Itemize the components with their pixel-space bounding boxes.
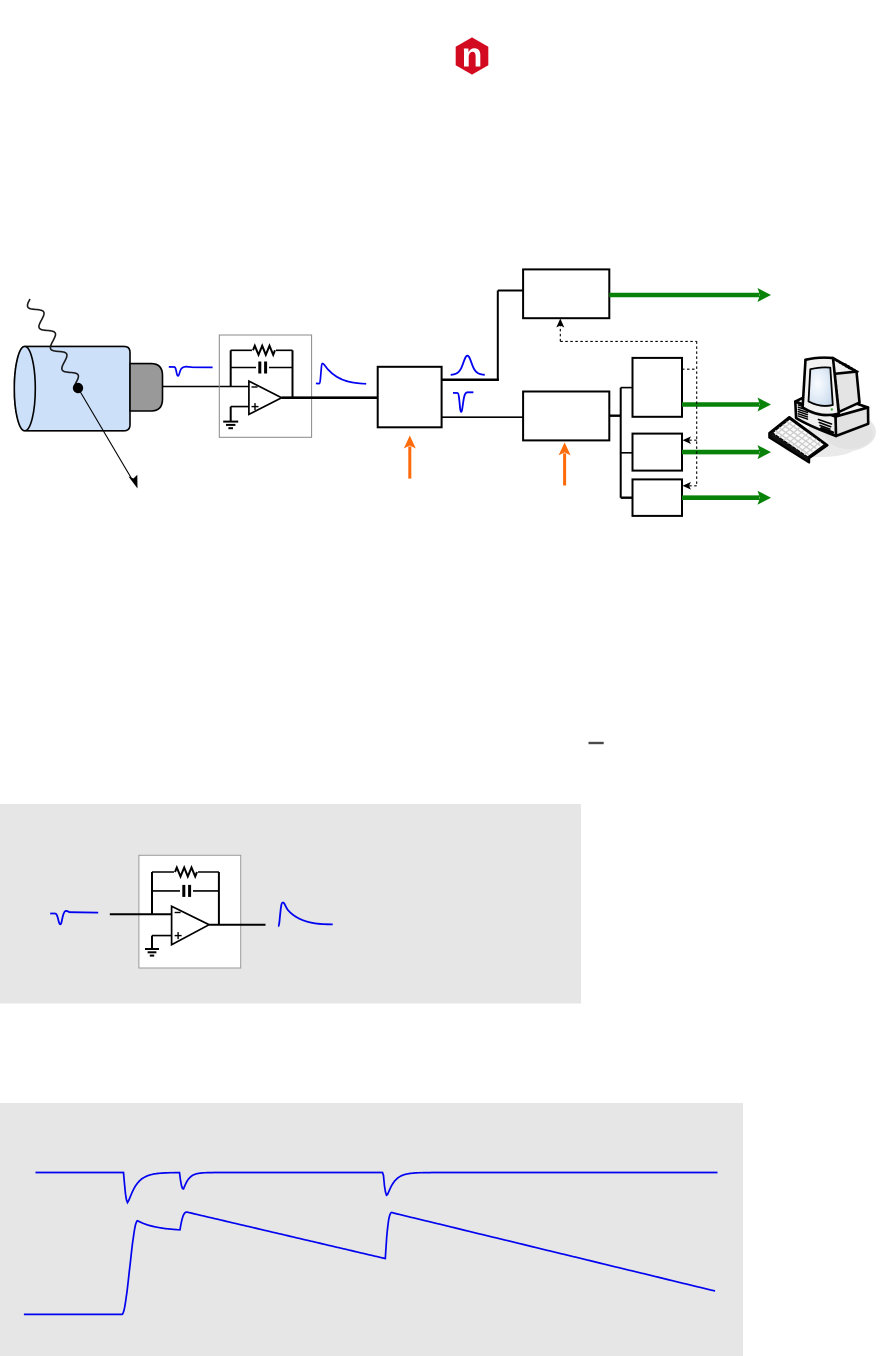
svg-text:n: n — [462, 37, 483, 75]
